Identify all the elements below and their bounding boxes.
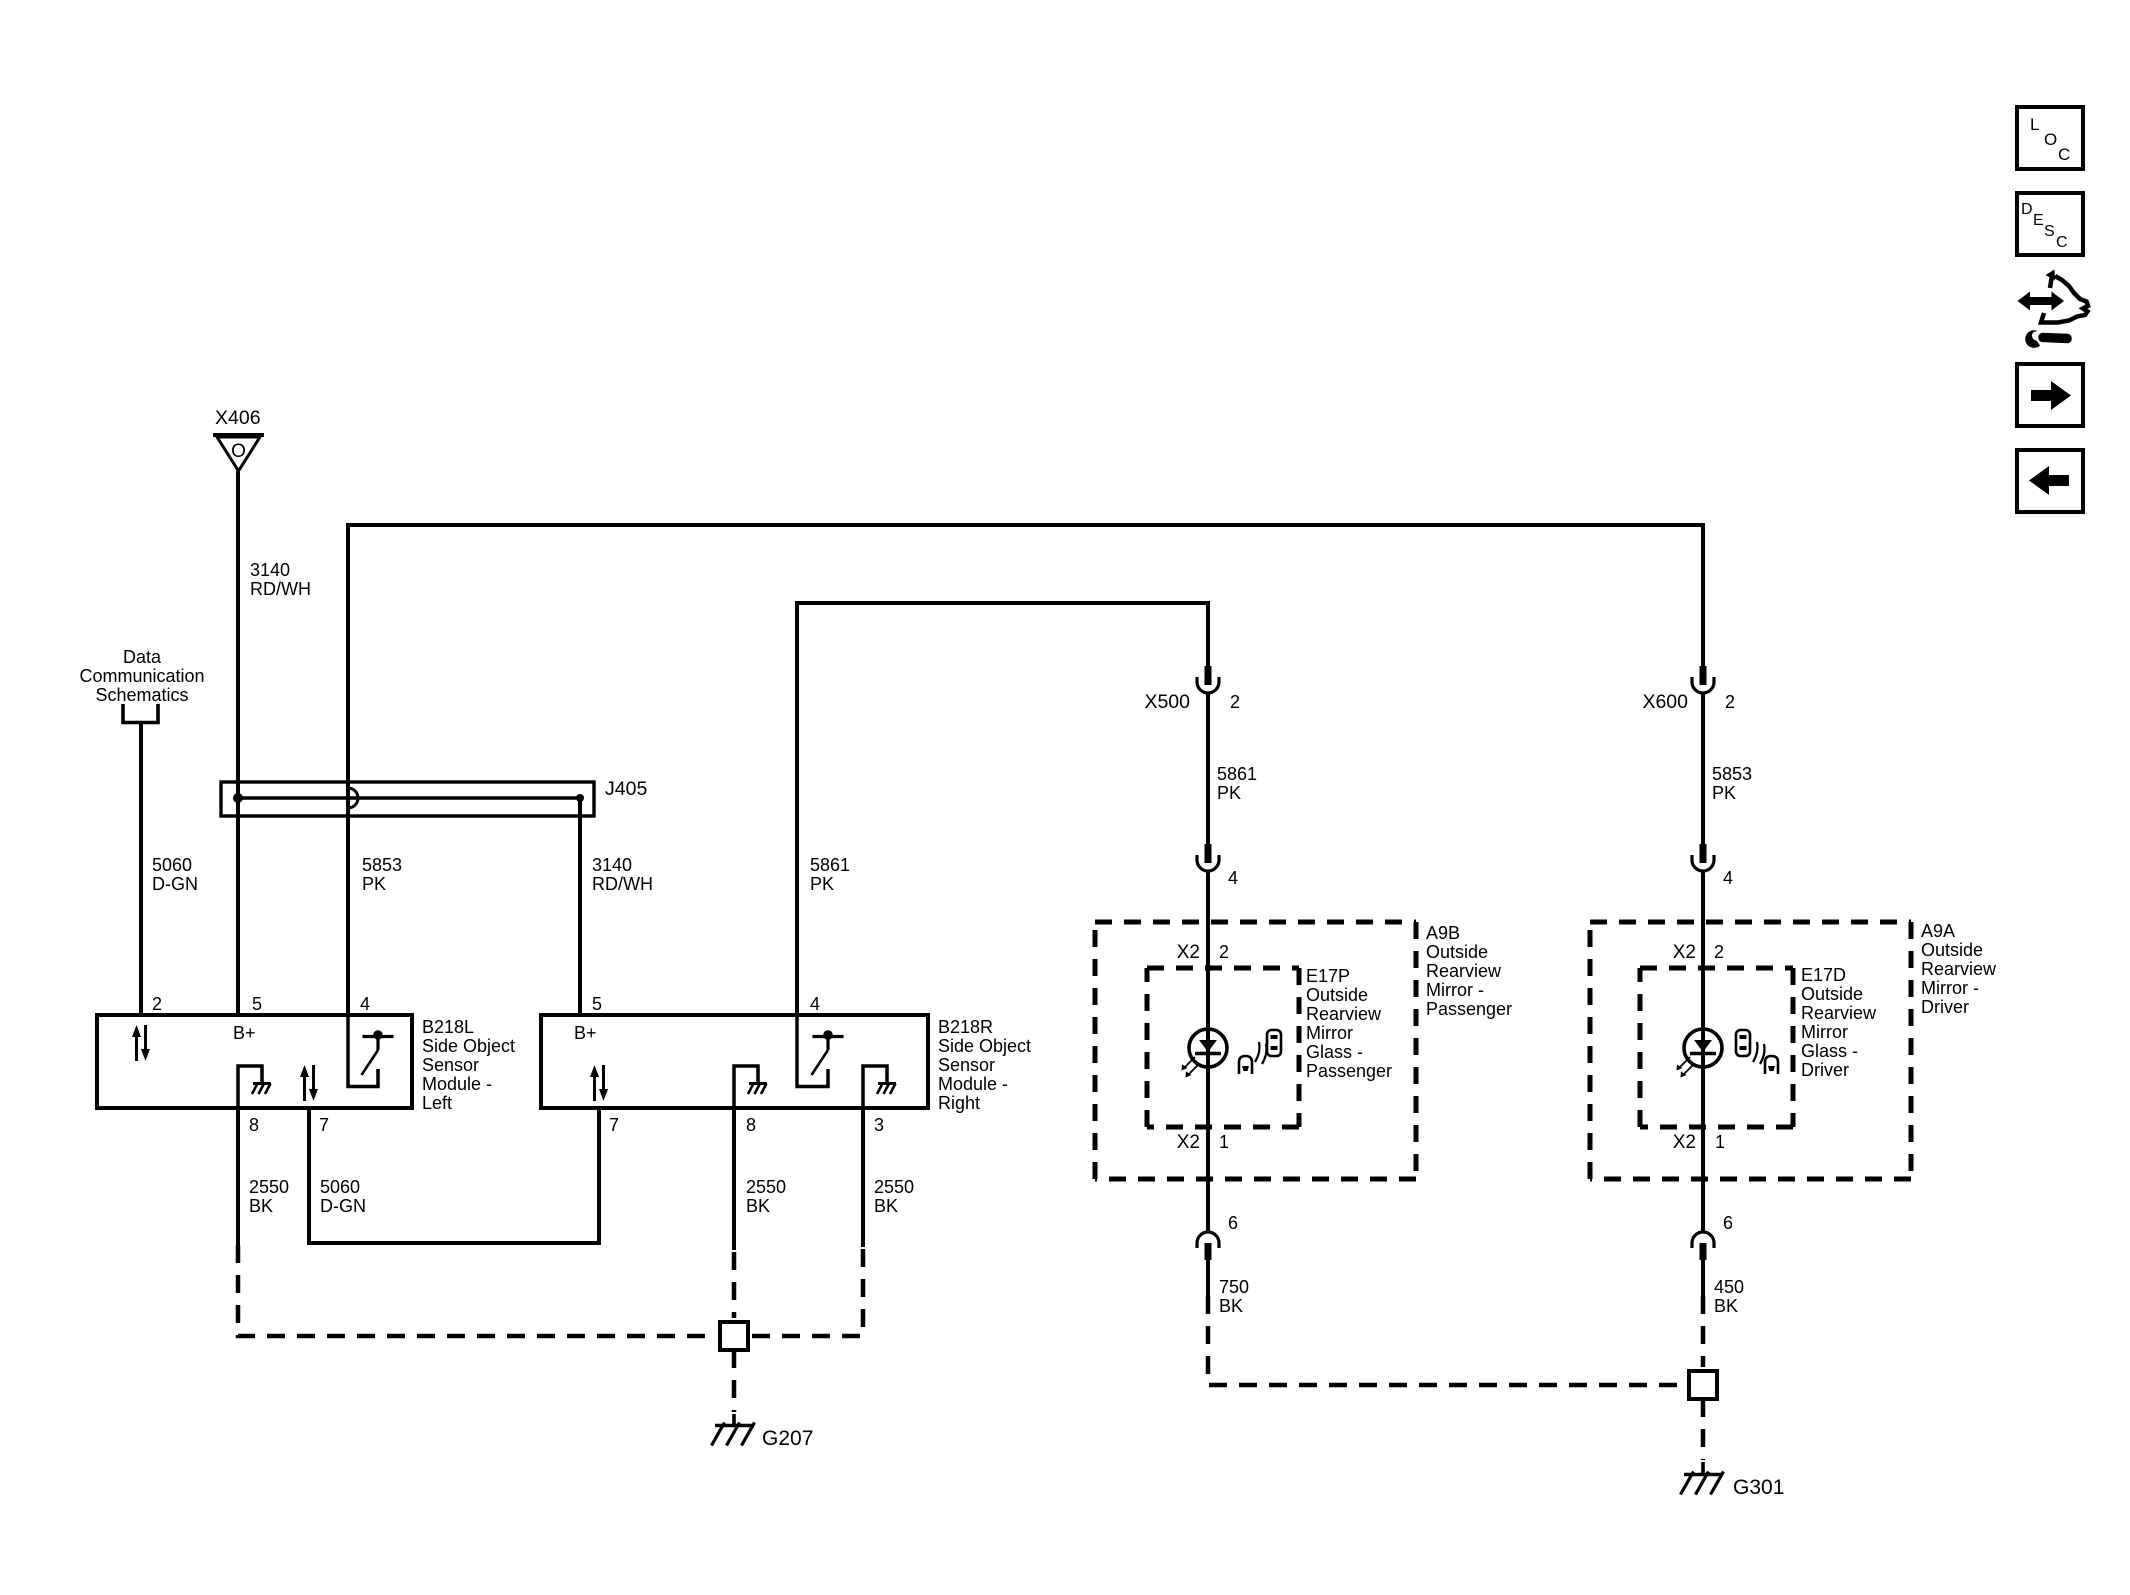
svg-text:1: 1	[1219, 1132, 1229, 1152]
svg-text:4: 4	[360, 994, 370, 1014]
pass-through terminal hook on 5853 wire	[348, 788, 358, 808]
svg-text:Sensor: Sensor	[938, 1055, 995, 1075]
svg-text:6: 6	[1723, 1213, 1733, 1233]
wire 5853 PK	[1701, 694, 1705, 844]
svg-text:A9A: A9A	[1921, 921, 1955, 941]
connector A9B X2 pin 4	[1205, 844, 1212, 863]
svg-text:Sensor: Sensor	[422, 1055, 479, 1075]
svg-text:BK: BK	[1219, 1296, 1243, 1316]
svg-text:3140: 3140	[592, 855, 632, 875]
component E17D Outside Rearview Mirror Glass - Driver (dashed)	[1640, 968, 1793, 1127]
connector A9A X2 pin 4	[1700, 844, 1707, 863]
svg-text:Schematics: Schematics	[95, 685, 188, 705]
wire 2550 BK from B218R pin 8	[732, 1108, 736, 1250]
icon button next (right arrow)	[2017, 364, 2083, 426]
svg-text:Glass -: Glass -	[1306, 1042, 1363, 1062]
ground G207	[715, 1424, 754, 1427]
svg-text:Passenger: Passenger	[1306, 1061, 1392, 1081]
svg-text:RD/WH: RD/WH	[592, 874, 653, 894]
svg-text:PK: PK	[1217, 783, 1241, 803]
svg-text:Driver: Driver	[1801, 1060, 1849, 1080]
svg-text:7: 7	[609, 1115, 619, 1135]
svg-text:8: 8	[249, 1115, 259, 1135]
svg-text:2550: 2550	[249, 1177, 289, 1197]
svg-text:7: 7	[319, 1115, 329, 1135]
icon button DESC	[2017, 193, 2083, 255]
svg-text:8: 8	[746, 1115, 756, 1135]
wire 5861: B218R pin 4 up to second horizontal to X500	[795, 603, 799, 1016]
svg-text:L: L	[2030, 115, 2039, 134]
svg-text:J405: J405	[605, 778, 647, 800]
ground G301	[1684, 1473, 1723, 1476]
svg-text:B218L: B218L	[422, 1017, 474, 1037]
wire 3140 RD/WH from J405 to B218R pin 5	[578, 798, 582, 1016]
svg-text:Rearview: Rearview	[1306, 1004, 1382, 1024]
svg-text:Passenger: Passenger	[1426, 999, 1512, 1019]
svg-text:PK: PK	[1712, 783, 1736, 803]
svg-text:E: E	[2033, 212, 2044, 229]
svg-text:5861: 5861	[1217, 764, 1257, 784]
B218L internal switch (pin 4)	[348, 1016, 378, 1087]
svg-text:3140: 3140	[250, 560, 290, 580]
wire 750 BK	[1206, 1260, 1210, 1296]
LED indicator (E17D)	[1684, 1029, 1722, 1067]
svg-text:2: 2	[1714, 942, 1724, 962]
wire top horizontal to X600	[346, 523, 1705, 527]
svg-text:5060: 5060	[320, 1177, 360, 1197]
svg-text:Communication: Communication	[79, 666, 204, 686]
svg-text:O: O	[2044, 130, 2057, 149]
svg-text:4: 4	[1723, 868, 1733, 888]
svg-text:1: 1	[1715, 1132, 1725, 1152]
svg-text:X600: X600	[1642, 691, 1688, 713]
wire 450 BK	[1701, 1260, 1705, 1296]
svg-text:5861: 5861	[810, 855, 850, 875]
B218L serial data arrows (pin 7)	[303, 1074, 306, 1101]
svg-text:X2: X2	[1673, 1132, 1696, 1153]
junction dot (3140 tap)	[233, 793, 243, 803]
svg-text:BK: BK	[1714, 1296, 1738, 1316]
svg-text:Mirror: Mirror	[1801, 1022, 1848, 1042]
svg-text:Module -: Module -	[422, 1074, 492, 1094]
B218R internal ground (pin 8)	[734, 1066, 758, 1107]
wire 5861 PK	[1206, 694, 1210, 844]
component A9B Outside Rearview Mirror - Passenger (dashed)	[1095, 922, 1416, 1179]
svg-text:B+: B+	[233, 1023, 256, 1043]
svg-text:3: 3	[874, 1115, 884, 1135]
svg-text:2: 2	[152, 994, 162, 1014]
svg-text:Data: Data	[123, 647, 162, 667]
svg-text:X2: X2	[1177, 1132, 1200, 1153]
wire 5060 D-GN: B218L pin 7 to B218R pin 7	[309, 1108, 599, 1243]
svg-text:PK: PK	[810, 874, 834, 894]
svg-text:4: 4	[1228, 868, 1238, 888]
svg-text:5060: 5060	[152, 855, 192, 875]
module B218L Side Object Sensor Module - Left	[97, 994, 412, 1135]
svg-text:450: 450	[1714, 1277, 1744, 1297]
wire 5060 D-GN from reference to B218L pin 2	[139, 722, 143, 1016]
svg-text:Mirror -: Mirror -	[1921, 978, 1979, 998]
svg-text:C: C	[2056, 234, 2068, 251]
svg-text:Mirror: Mirror	[1306, 1023, 1353, 1043]
svg-text:5: 5	[252, 994, 262, 1014]
B218R internal switch (pin 4)	[797, 1016, 828, 1087]
icon button back (left arrow)	[2017, 450, 2083, 512]
svg-text:Outside: Outside	[1306, 985, 1368, 1005]
svg-text:BK: BK	[746, 1196, 770, 1216]
svg-text:Outside: Outside	[1426, 942, 1488, 962]
connector A9A X2 pin 6	[1692, 1232, 1714, 1248]
svg-text:5853: 5853	[362, 855, 402, 875]
svg-text:2: 2	[1725, 692, 1735, 712]
svg-text:Driver: Driver	[1921, 997, 1969, 1017]
svg-text:Rearview: Rearview	[1801, 1003, 1877, 1023]
icon button LOC	[2017, 107, 2083, 169]
svg-text:Side Object: Side Object	[422, 1036, 515, 1056]
svg-text:Outside: Outside	[1801, 984, 1863, 1004]
svg-text:Outside: Outside	[1921, 940, 1983, 960]
svg-text:2550: 2550	[874, 1177, 914, 1197]
svg-text:Rearview: Rearview	[1921, 959, 1997, 979]
icon service/repair (arrows + wrench)	[2018, 270, 2089, 348]
dashed ground wire to splice	[238, 1245, 716, 1336]
component A9A Outside Rearview Mirror - Driver (dashed)	[1590, 922, 1911, 1179]
svg-text:Module -: Module -	[938, 1074, 1008, 1094]
splice pack J405	[221, 778, 647, 816]
LED indicator (E17P)	[1189, 1029, 1227, 1067]
svg-text:D-GN: D-GN	[152, 874, 198, 894]
B218R internal ground (pin 3)	[863, 1066, 887, 1107]
ground splice square (left)	[720, 1322, 748, 1350]
svg-text:S: S	[2044, 223, 2055, 240]
svg-text:Left: Left	[422, 1093, 452, 1113]
svg-text:O: O	[231, 441, 246, 462]
svg-text:X2: X2	[1673, 942, 1696, 963]
svg-text:5853: 5853	[1712, 764, 1752, 784]
svg-text:6: 6	[1228, 1213, 1238, 1233]
svg-text:Glass -: Glass -	[1801, 1041, 1858, 1061]
junction dot (output to B218R pin 5)	[576, 794, 584, 802]
component E17P Outside Rearview Mirror Glass - Passenger (dashed)	[1147, 968, 1299, 1127]
svg-text:5: 5	[592, 994, 602, 1014]
svg-text:X406: X406	[215, 407, 261, 429]
dashed wire splice to G207	[732, 1350, 737, 1412]
svg-text:X500: X500	[1144, 691, 1190, 713]
svg-text:D-GN: D-GN	[320, 1196, 366, 1216]
wire 2550 BK from B218L pin 8	[236, 1108, 240, 1245]
dashed wire splice to G301	[1701, 1399, 1706, 1460]
svg-text:C: C	[2058, 145, 2070, 164]
svg-text:4: 4	[810, 994, 820, 1014]
svg-text:750: 750	[1219, 1277, 1249, 1297]
svg-text:Side Object: Side Object	[938, 1036, 1031, 1056]
module B218R Side Object Sensor Module - Right	[541, 994, 928, 1135]
svg-text:E17D: E17D	[1801, 965, 1846, 985]
svg-text:BK: BK	[249, 1196, 273, 1216]
connector A9B X2 pin 6	[1197, 1232, 1219, 1248]
ground splice square (right)	[1689, 1371, 1717, 1399]
wire 3140 RD/WH from X406 down through J405 to B218L pin 5	[236, 471, 240, 1016]
connector X406	[213, 407, 264, 471]
svg-text:G301: G301	[1733, 1476, 1784, 1499]
B218L internal ground (pin 8)	[238, 1066, 262, 1107]
svg-text:Mirror -: Mirror -	[1426, 980, 1484, 1000]
svg-text:A9B: A9B	[1426, 923, 1460, 943]
svg-text:X2: X2	[1177, 942, 1200, 963]
svg-text:B218R: B218R	[938, 1017, 993, 1037]
wire into mirror	[1701, 872, 1705, 1232]
off-page reference: Data Communication Schematics	[79, 647, 204, 723]
wire 2550 BK from B218R pin 3	[861, 1108, 865, 1247]
svg-text:Right: Right	[938, 1093, 980, 1113]
svg-text:E17P: E17P	[1306, 966, 1350, 986]
wire into mirror	[1206, 872, 1210, 1232]
B218L serial data arrows (pin 2)	[135, 1034, 138, 1061]
svg-text:RD/WH: RD/WH	[250, 579, 311, 599]
B218R serial data arrows (pin 7)	[593, 1074, 596, 1101]
wire 5853: B218L pin 4 up through J405 to top horizontal	[346, 525, 350, 1016]
svg-text:2550: 2550	[746, 1177, 786, 1197]
svg-text:2: 2	[1230, 692, 1240, 712]
svg-text:D: D	[2021, 201, 2033, 218]
svg-text:B+: B+	[574, 1023, 597, 1043]
connector X600 pin 2	[1700, 666, 1707, 685]
svg-text:BK: BK	[874, 1196, 898, 1216]
svg-text:G207: G207	[762, 1427, 813, 1450]
svg-text:PK: PK	[362, 874, 386, 894]
connector X500 pin 2	[1205, 666, 1212, 685]
svg-text:2: 2	[1219, 942, 1229, 962]
svg-text:Rearview: Rearview	[1426, 961, 1502, 981]
